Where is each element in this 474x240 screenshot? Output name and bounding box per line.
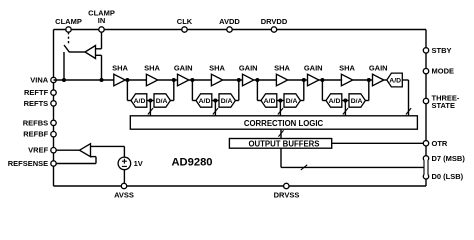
svg-text:A/D: A/D (199, 98, 211, 105)
svg-text:STBY: STBY (432, 46, 452, 55)
svg-text:SHA: SHA (144, 64, 160, 73)
svg-text:D/A: D/A (351, 98, 363, 105)
svg-text:STATE: STATE (432, 101, 455, 110)
svg-text:GAIN: GAIN (174, 64, 193, 73)
svg-text:CLK: CLK (177, 17, 193, 26)
svg-text:MODE: MODE (432, 67, 455, 76)
svg-text:DRVSS: DRVSS (274, 190, 300, 199)
svg-text:A/D: A/D (389, 77, 401, 84)
svg-text:VINA: VINA (30, 75, 49, 84)
svg-text:AD9280: AD9280 (171, 156, 212, 168)
svg-text:DRVDD: DRVDD (261, 17, 288, 26)
svg-text:REFBF: REFBF (23, 130, 48, 139)
svg-text:D7 (MSB): D7 (MSB) (432, 154, 466, 163)
svg-text:SHA: SHA (112, 64, 128, 73)
svg-text:OTR: OTR (432, 139, 448, 148)
svg-text:A/D: A/D (329, 98, 341, 105)
svg-text:CLAMP: CLAMP (55, 17, 82, 26)
svg-text:REFSENSE: REFSENSE (8, 159, 48, 168)
svg-text:A/D: A/D (134, 98, 146, 105)
svg-text:AVSS: AVSS (114, 190, 134, 199)
svg-text:VREF: VREF (28, 146, 48, 155)
svg-text:CORRECTION LOGIC: CORRECTION LOGIC (244, 119, 324, 128)
svg-text:REFTF: REFTF (24, 88, 49, 97)
svg-text:D/A: D/A (221, 98, 233, 105)
svg-text:D0 (LSB): D0 (LSB) (432, 172, 464, 181)
svg-text:SHA: SHA (209, 64, 225, 73)
svg-text:A/D: A/D (264, 98, 276, 105)
svg-text:GAIN: GAIN (304, 64, 323, 73)
svg-text:D/A: D/A (156, 98, 168, 105)
svg-text:1V: 1V (134, 159, 143, 168)
svg-text:OUTPUT BUFFERS: OUTPUT BUFFERS (248, 139, 319, 148)
svg-text:SHA: SHA (339, 64, 355, 73)
svg-text:GAIN: GAIN (369, 64, 388, 73)
svg-text:IN: IN (98, 16, 106, 25)
svg-text:AVDD: AVDD (219, 17, 240, 26)
svg-text:D/A: D/A (286, 98, 298, 105)
svg-text:REFTS: REFTS (24, 99, 49, 108)
svg-text:SHA: SHA (274, 64, 290, 73)
svg-text:REFBS: REFBS (23, 118, 48, 127)
svg-text:GAIN: GAIN (239, 64, 258, 73)
